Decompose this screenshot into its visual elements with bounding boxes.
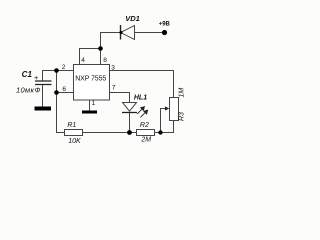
wire R2 to R3 bottom	[155, 121, 174, 133]
wire pin 2 from C1 top	[43, 71, 74, 82]
svg-text:4: 4	[81, 57, 85, 64]
svg-text:1: 1	[92, 100, 96, 107]
wire C1 bottom lead to ground	[42, 85, 44, 108]
wire pin 8 branch	[100, 49, 102, 65]
svg-text:R2: R2	[140, 122, 149, 129]
svg-text:VD1: VD1	[125, 14, 140, 23]
wire pin 4 branch	[80, 49, 101, 65]
svg-text:+9В: +9В	[159, 22, 171, 28]
svg-text:+: +	[34, 73, 39, 82]
node +9B terminal	[159, 22, 171, 36]
wire top rail to diode	[101, 33, 121, 49]
svg-text:HL1: HL1	[134, 94, 147, 101]
wire pin 1 to ground	[89, 100, 91, 111]
LED HL1	[122, 94, 148, 117]
svg-text:2M: 2M	[140, 136, 151, 143]
wire pin 7 to LED anode	[110, 93, 130, 104]
svg-text:3: 3	[111, 65, 115, 72]
capacitor C1	[16, 70, 51, 94]
node junction pin 2	[54, 68, 59, 73]
wire R3 wiper down to junction	[161, 109, 166, 133]
svg-text:2: 2	[62, 64, 66, 71]
svg-text:7: 7	[112, 85, 116, 92]
svg-text:10K: 10K	[68, 138, 81, 145]
ground bar under C1	[35, 107, 52, 111]
wire LED cathode down to junction	[129, 113, 131, 133]
node junction R2-R3 wiper	[158, 130, 162, 134]
node junction pin 6	[54, 90, 59, 95]
svg-text:6: 6	[62, 86, 66, 93]
diode VD1	[120, 14, 140, 40]
ground bar under pin 1	[82, 111, 97, 114]
resistor R3 potentiometer	[165, 88, 186, 121]
svg-text:NXP 7555: NXP 7555	[75, 76, 106, 83]
svg-text:10мкФ: 10мкФ	[16, 86, 41, 95]
wire pin 6	[57, 92, 74, 94]
svg-text:8: 8	[103, 57, 107, 64]
node pins 4-8 junction	[98, 46, 103, 51]
wire pin 3 to R3 top	[110, 71, 174, 98]
svg-text:R3: R3	[179, 112, 186, 121]
resistor R2	[137, 122, 155, 144]
resistor R1	[65, 122, 83, 145]
wire R1 to junction to R2	[83, 132, 137, 134]
node junction R1-LED-R2	[127, 130, 132, 135]
svg-text:1M: 1M	[179, 88, 186, 98]
IC U1 NXP 7555 box	[74, 65, 110, 101]
wire node 2-6 vertical down to R1	[57, 71, 65, 133]
wire diode to +9B terminal	[135, 32, 165, 34]
svg-text:C1: C1	[22, 70, 33, 79]
svg-text:R1: R1	[67, 122, 76, 129]
